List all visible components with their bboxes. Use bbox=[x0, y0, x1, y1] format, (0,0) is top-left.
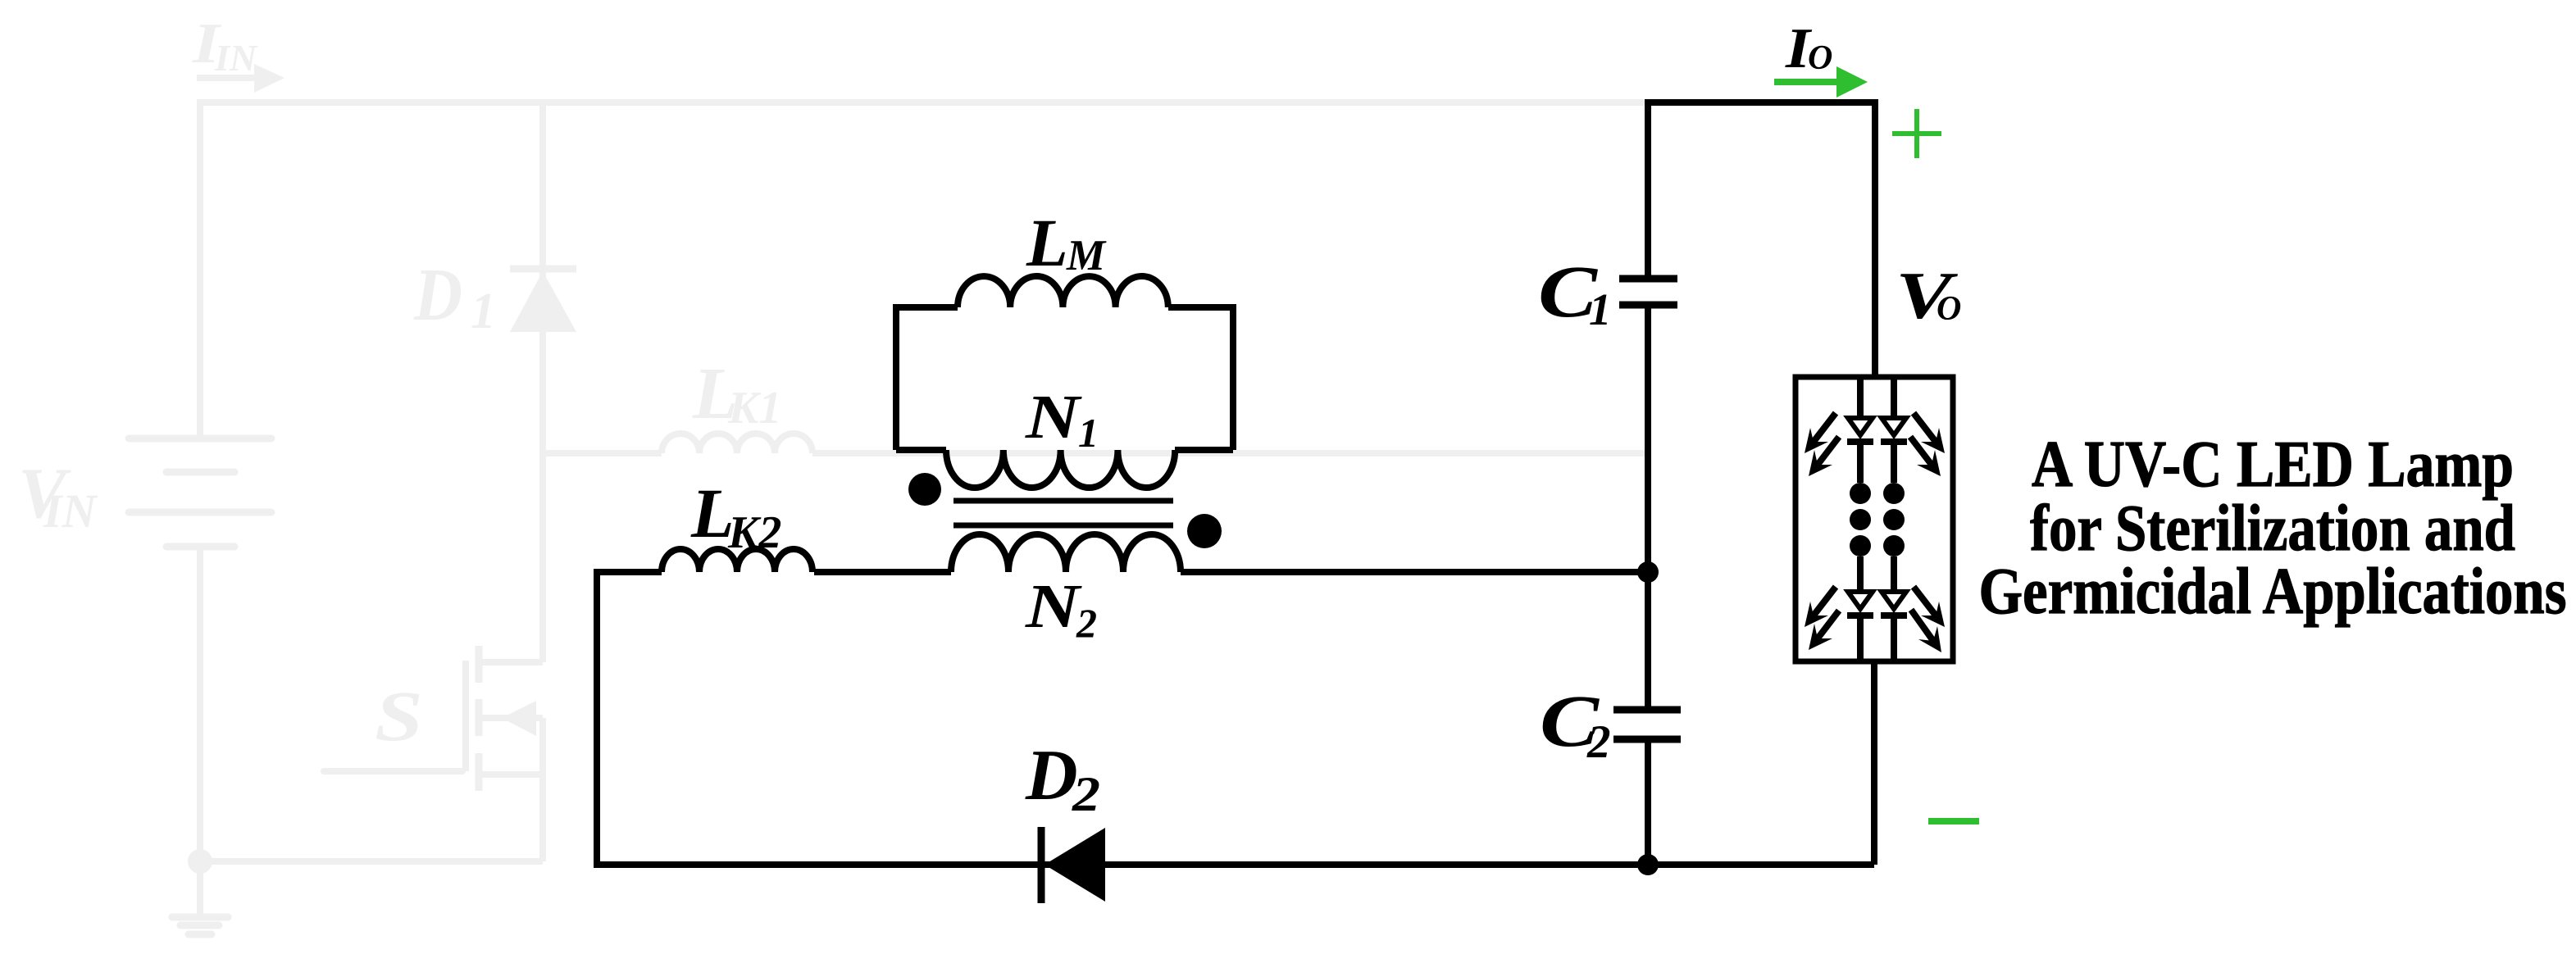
svg-text:N: N bbox=[1025, 572, 1083, 641]
svg-text:1: 1 bbox=[1589, 284, 1612, 334]
svg-text:N: N bbox=[1025, 383, 1083, 452]
svg-text:A UV-C LED Lamp: A UV-C LED Lamp bbox=[2032, 429, 2514, 501]
svg-text:K2: K2 bbox=[727, 507, 781, 558]
svg-text:2: 2 bbox=[1076, 600, 1097, 646]
svg-text:IN: IN bbox=[214, 37, 258, 79]
svg-text:2: 2 bbox=[1072, 767, 1100, 821]
svg-text:D: D bbox=[413, 253, 462, 336]
svg-text:O: O bbox=[1808, 39, 1832, 77]
svg-text:2: 2 bbox=[1586, 716, 1611, 768]
svg-text:D: D bbox=[1025, 736, 1078, 815]
svg-text:K1: K1 bbox=[727, 383, 781, 434]
svg-text:1: 1 bbox=[471, 284, 496, 339]
svg-text:L: L bbox=[1026, 205, 1068, 280]
svg-text:S: S bbox=[375, 676, 423, 756]
svg-text:1: 1 bbox=[1078, 410, 1099, 456]
svg-text:IN: IN bbox=[43, 484, 98, 538]
svg-text:O: O bbox=[1937, 290, 1961, 328]
svg-text:M: M bbox=[1066, 232, 1107, 279]
svg-text:Germicidal Applications: Germicidal Applications bbox=[1979, 556, 2567, 628]
svg-text:for Sterilization and: for Sterilization and bbox=[2030, 493, 2515, 565]
